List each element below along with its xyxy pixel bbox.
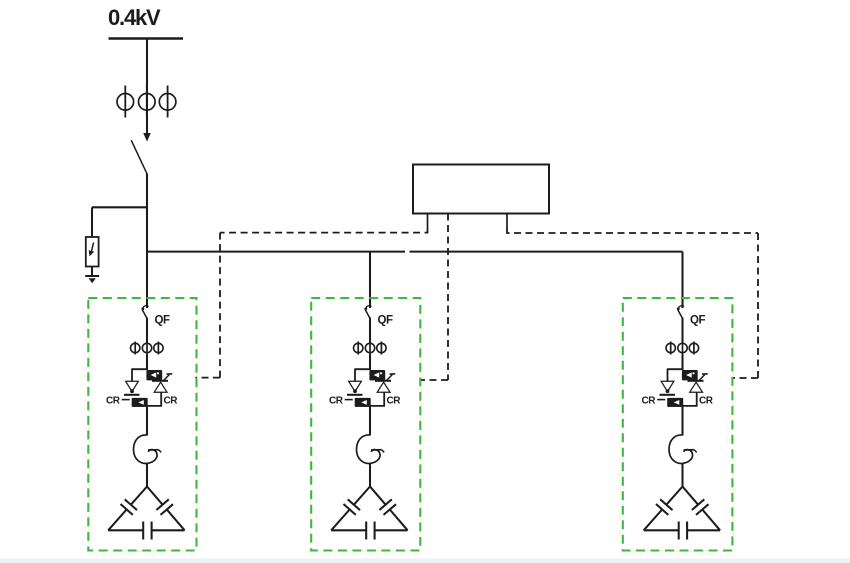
capacitor C3 right plates bbox=[692, 499, 704, 510]
capacitor C2 bottom plates bbox=[365, 522, 367, 540]
thyristor V3 left triangle (pointing down) bbox=[661, 381, 674, 391]
breaker switch QF3 blade bbox=[679, 306, 684, 308]
capacitor bank C3 delta left edge bbox=[666, 487, 682, 505]
svg-text:CR: CR bbox=[387, 396, 402, 407]
current transformer CT3.3 bbox=[693, 342, 695, 355]
wire reactor to capacitor bank branch 3 bbox=[681, 463, 683, 487]
capacitor bank C1 delta bottom edge bbox=[108, 529, 143, 531]
thyristor module V1 left branch wire bbox=[131, 369, 133, 381]
reactor L1 (loop coil) bbox=[134, 435, 158, 464]
capacitor C2 left plates bbox=[348, 499, 360, 510]
control cable branch 3: into box bbox=[733, 377, 759, 379]
capacitor bank C1 delta left edge bbox=[131, 487, 147, 505]
main LV distribution bus (solid) segment 1 bbox=[147, 251, 405, 253]
thyristor module V2 upper-right filled block with arrow bbox=[369, 370, 385, 380]
controller left output stub bbox=[427, 214, 429, 229]
thyristor module V1 bottom bar bbox=[132, 405, 162, 407]
thyristor module V2 left branch wire bbox=[354, 369, 356, 381]
feeder wire branch 1 into box bbox=[146, 252, 148, 308]
wire thyristor module to reactor branch 1 bbox=[146, 406, 148, 436]
thyristor V2 right cathode bar bbox=[375, 380, 391, 382]
control cable branch 1: into box bbox=[196, 377, 221, 379]
bottom edge tint strip bbox=[0, 559, 850, 563]
thyristor V1 left triangle (pointing down) bbox=[126, 381, 139, 391]
main LV distribution bus (solid) segment 2 bbox=[410, 251, 683, 253]
green dashed enclosure box 2 bbox=[311, 298, 420, 551]
wire reactor to capacitor bank branch 2 bbox=[369, 463, 371, 487]
thyristor V3 left gate lead bbox=[657, 399, 665, 401]
thyristor module V2 lower-left filled block with arrow bbox=[355, 398, 371, 407]
feeder arrowhead bbox=[143, 133, 151, 142]
ground symbol bbox=[85, 275, 99, 277]
green dashed enclosure box 3 bbox=[623, 298, 733, 551]
capacitor bank C3 delta right edge bbox=[683, 487, 699, 505]
thyristor V2 right triangle (pointing up) bbox=[377, 382, 390, 392]
current transformer CT2.3 bbox=[380, 342, 382, 355]
controller box bbox=[413, 165, 549, 214]
svg-text:0.4kV: 0.4kV bbox=[108, 5, 161, 30]
capacitor bank C1 delta right edge bbox=[147, 487, 163, 505]
thyristor V1 right cathode bar bbox=[152, 380, 168, 382]
0.4kV busbar bbox=[109, 37, 184, 39]
thyristor module V3 bottom bar bbox=[668, 405, 698, 407]
wire breaker to tee node bbox=[146, 174, 148, 253]
current transformer CT3.2 bbox=[682, 342, 684, 355]
control cable branch 2: into box bbox=[420, 379, 448, 381]
thyristor module V1 top bar bbox=[131, 368, 147, 370]
svg-text:CR: CR bbox=[329, 396, 344, 407]
wire thyristor module to reactor branch 2 bbox=[369, 406, 371, 436]
thyristor module V3 left branch wire bbox=[667, 369, 669, 381]
thyristor V3 right gate lead bbox=[699, 375, 705, 381]
current transformer CT2.2 bbox=[369, 342, 371, 355]
svg-text:QF: QF bbox=[690, 315, 705, 327]
control cable (dashed) controller to branch 3: horizontal run bbox=[507, 229, 758, 234]
thyristor module V1 upper-right filled block with arrow bbox=[146, 370, 162, 380]
wire thyristor module to reactor branch 3 bbox=[681, 406, 683, 436]
green dashed enclosure box 1 bbox=[88, 298, 196, 551]
breaker switch QF1 blade bbox=[143, 306, 148, 308]
wire switch to CT group branch 3 bbox=[681, 318, 683, 344]
wire down to arrester bbox=[91, 207, 93, 237]
capacitor C2 right plates bbox=[379, 499, 391, 510]
thyristor V1 left cathode bar bbox=[124, 394, 140, 396]
current transformer CT1.1 bbox=[134, 342, 136, 355]
capacitor bank C2 delta left edge bbox=[354, 487, 370, 505]
capacitor bank C2 delta bottom edge bbox=[331, 529, 366, 531]
thyristor module V1 lower-left filled block with arrow bbox=[132, 398, 148, 407]
capacitor bank C2 delta right edge bbox=[370, 487, 386, 505]
thyristor module V3 top bar bbox=[667, 368, 683, 370]
surge arrester F1 body bbox=[86, 237, 99, 267]
wire switch to CT group branch 1 bbox=[146, 318, 148, 344]
reactor L3 (loop coil) bbox=[669, 435, 693, 464]
svg-text:CR: CR bbox=[699, 396, 714, 407]
thyristor module V3 lower-left filled block with arrow bbox=[667, 398, 683, 407]
wire reactor to capacitor bank branch 1 bbox=[146, 463, 148, 487]
thyristor V2 right gate lead bbox=[386, 375, 392, 381]
thyristor V1 right gate lead bbox=[163, 375, 169, 381]
incoming feeder wire from busbar bbox=[146, 39, 148, 135]
current transformer CT1.3 bbox=[157, 342, 159, 355]
wire CT group to thyristor module branch 1 bbox=[146, 355, 148, 371]
control cable branch 1: vertical run bbox=[219, 233, 221, 378]
thyristor V2 left cathode bar bbox=[347, 394, 363, 396]
breaker switch QF2 pivot dot bbox=[364, 307, 367, 310]
thyristor module V3 upper-right filled block with arrow bbox=[682, 370, 698, 380]
thyristor V2 left triangle (pointing down) bbox=[349, 381, 362, 391]
incoming CT 2 bbox=[146, 86, 148, 118]
thyristor V3 left cathode bar bbox=[660, 394, 676, 396]
thyristor module V2 top bar bbox=[354, 368, 370, 370]
thyristor V2 left gate lead bbox=[345, 399, 353, 401]
wire CT group to thyristor module branch 2 bbox=[369, 355, 371, 371]
current transformer CT3.1 bbox=[670, 342, 672, 355]
capacitor C1 bottom plates bbox=[142, 522, 144, 540]
capacitor C1 right plates bbox=[156, 499, 168, 510]
capacitor C3 bottom plates bbox=[678, 522, 680, 540]
svg-text:CR: CR bbox=[106, 396, 121, 407]
svg-text:CR: CR bbox=[164, 396, 179, 407]
feeder wire branch 3 drop from bus bbox=[681, 252, 683, 308]
control cable branch 3: vertical run bbox=[757, 233, 759, 378]
feeder wire branch 2 drop from bus bbox=[369, 252, 371, 308]
wire CT group to thyristor module branch 3 bbox=[681, 355, 683, 371]
main breaker blade bbox=[131, 140, 147, 174]
thyristor module V1 right branch wire bbox=[160, 392, 162, 406]
thyristor V1 right triangle (pointing up) bbox=[154, 382, 167, 392]
svg-text:QF: QF bbox=[378, 315, 393, 327]
thyristor module V2 right branch wire bbox=[383, 392, 385, 406]
current transformer CT2.1 bbox=[357, 342, 359, 355]
breaker switch QF3 pivot dot bbox=[677, 307, 680, 310]
control cable (dashed) controller to branch 2: vertical run bbox=[447, 214, 449, 381]
current transformer CT1.2 bbox=[146, 342, 148, 355]
thyristor module V3 right branch wire bbox=[696, 392, 698, 406]
thyristor V3 right triangle (pointing up) bbox=[690, 382, 703, 392]
reactor L2 (loop coil) bbox=[357, 435, 381, 464]
tee wire to surge arrester bbox=[92, 206, 147, 208]
controller right output stub bbox=[506, 214, 508, 229]
incoming CT 1 bbox=[124, 86, 126, 118]
incoming CT 3 bbox=[167, 86, 169, 118]
capacitor C3 left plates bbox=[660, 499, 672, 510]
surge arrester F1 internal arrow bbox=[91, 243, 93, 253]
wire switch to CT group branch 2 bbox=[369, 318, 371, 344]
capacitor bank C3 delta bottom edge bbox=[644, 529, 679, 531]
svg-text:CR: CR bbox=[642, 396, 657, 407]
breaker switch QF2 blade bbox=[366, 306, 371, 308]
thyristor V3 right cathode bar bbox=[688, 380, 704, 382]
svg-text:QF: QF bbox=[155, 315, 170, 327]
capacitor C1 left plates bbox=[125, 499, 137, 510]
thyristor module V2 bottom bar bbox=[355, 405, 385, 407]
thyristor V1 left gate lead bbox=[122, 399, 130, 401]
control cable (dashed) controller to branch 1: horizontal run bbox=[220, 229, 428, 233]
wire arrester to ground bbox=[91, 267, 93, 277]
breaker switch QF1 pivot dot bbox=[141, 307, 144, 310]
